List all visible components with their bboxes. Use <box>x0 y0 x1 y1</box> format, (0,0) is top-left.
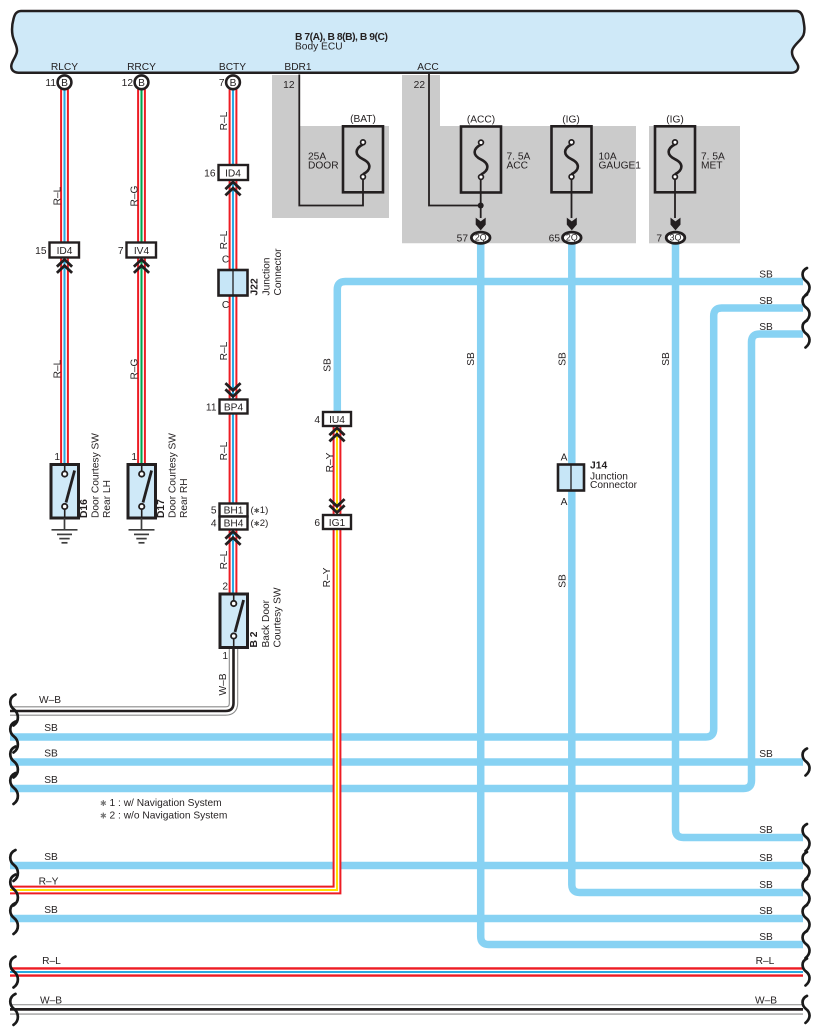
svg-text:12: 12 <box>122 78 134 89</box>
svg-text:SB: SB <box>759 880 773 891</box>
svg-text:11: 11 <box>45 78 56 89</box>
connector IV4 pin 7 <box>127 243 157 258</box>
svg-text:65: 65 <box>549 234 561 245</box>
svg-text:C: C <box>222 300 229 311</box>
svg-text:R–L: R–L <box>219 230 230 249</box>
pin 12 (B) RRCY <box>135 75 149 89</box>
wire SB H10 <box>10 915 803 923</box>
svg-text:Rear LH: Rear LH <box>102 480 113 518</box>
pin 7 (B) BCTY <box>226 75 240 89</box>
wire W-B bottom horizontal <box>10 1004 803 1014</box>
connector ID4 pin 15 <box>50 243 80 258</box>
pin 11 (B) RLCY <box>58 75 72 89</box>
fuse 10A GAUGE1 <box>552 126 592 192</box>
svg-text:R–L: R–L <box>219 111 230 130</box>
svg-text:W–B: W–B <box>40 996 62 1007</box>
svg-text:R–Y: R–Y <box>322 567 333 587</box>
svg-text:Rear RH: Rear RH <box>179 478 190 518</box>
svg-text:B: B <box>61 78 68 89</box>
svg-text:R–L: R–L <box>219 441 230 460</box>
svg-text:GAUGE1: GAUGE1 <box>599 161 642 172</box>
svg-text:7: 7 <box>118 246 124 257</box>
svg-text:B: B <box>230 78 237 89</box>
svg-text:✱ 1 : w/ Navigation System: ✱ 1 : w/ Navigation System <box>100 798 222 809</box>
wire ACC pin to junction <box>429 74 480 206</box>
right breaks <box>803 268 810 295</box>
connector ID4 pin 16 <box>219 165 249 180</box>
fuse 7.5A MET <box>655 126 695 192</box>
wire R-L chain BCTY <box>229 89 238 594</box>
svg-text:ACC: ACC <box>417 62 439 73</box>
svg-text:B 2: B 2 <box>249 631 260 647</box>
chevron up below ID4 <box>57 260 72 273</box>
svg-text:SB: SB <box>759 853 773 864</box>
arrow GAUGE1 fuse <box>567 218 577 231</box>
svg-text:BCTY: BCTY <box>219 62 246 73</box>
chevron up below IU4 <box>329 428 344 441</box>
svg-text:D16: D16 <box>79 499 90 518</box>
svg-text:16: 16 <box>204 169 216 180</box>
gray block BDR1/DOOR fuse <box>272 75 389 218</box>
wire SB V2 from 2Q(65) through J14 to H9 <box>572 244 803 893</box>
svg-text:Body ECU: Body ECU <box>295 42 343 53</box>
wire SB V3 from 3Q(7) to H7 <box>676 244 804 838</box>
connector BH4 pin 4 <box>220 517 248 530</box>
svg-text:1: 1 <box>131 452 137 463</box>
svg-text:SB: SB <box>759 270 773 281</box>
svg-text:SB: SB <box>44 905 58 916</box>
connector BH1 pin 5 <box>220 504 248 517</box>
oval 2Q pin 65 <box>563 232 582 243</box>
left breaks <box>10 695 18 726</box>
junction connector J22 <box>219 270 248 296</box>
wire MET fuse output <box>674 179 676 218</box>
chevron down above BP4 <box>225 383 240 396</box>
junction dot <box>478 203 484 209</box>
svg-text:4: 4 <box>314 415 320 426</box>
fuse 25A DOOR <box>343 126 383 192</box>
connector BP4 pin 11 <box>220 400 248 414</box>
wire SB from IU4 up to H1 right <box>337 282 803 413</box>
wire SB H2/V4/H4 <box>10 308 803 737</box>
svg-text:R–Y: R–Y <box>325 452 336 472</box>
svg-text:Door Courtesy SW: Door Courtesy SW <box>168 433 179 518</box>
wire R-L chain RLCY <box>60 89 69 465</box>
svg-text:SB: SB <box>759 825 773 836</box>
svg-text:MET: MET <box>701 161 723 172</box>
svg-text:4: 4 <box>211 519 217 530</box>
switch B2 back door <box>220 594 248 648</box>
svg-text:SB: SB <box>558 352 569 366</box>
switch D16 <box>51 465 79 519</box>
svg-text:15: 15 <box>35 246 47 257</box>
svg-text:1: 1 <box>222 651 228 662</box>
connector IU4 pin 4 <box>323 412 351 426</box>
svg-text:57: 57 <box>457 234 469 245</box>
svg-text:RRCY: RRCY <box>127 62 156 73</box>
svg-text:7: 7 <box>219 78 225 89</box>
svg-text:1: 1 <box>54 452 60 463</box>
svg-text:SB: SB <box>759 932 773 943</box>
svg-text:BH1: BH1 <box>224 506 244 517</box>
svg-text:11: 11 <box>206 403 217 414</box>
svg-text:BH4: BH4 <box>224 519 244 530</box>
svg-text:22: 22 <box>414 80 426 91</box>
svg-text:D17: D17 <box>156 499 167 518</box>
svg-text:Courtesy SW: Courtesy SW <box>273 587 284 647</box>
svg-text:(BAT): (BAT) <box>350 114 376 125</box>
wire R-L bottom horizontal <box>10 967 803 976</box>
svg-text:SB: SB <box>44 775 58 786</box>
svg-text:(✱1): (✱1) <box>251 505 269 516</box>
arrow ACC fuse <box>476 218 486 231</box>
arrow MET fuse <box>671 218 681 231</box>
connector IG1 pin 6 <box>323 515 351 529</box>
svg-text:SB: SB <box>759 296 773 307</box>
svg-text:J14: J14 <box>590 461 607 472</box>
svg-text:R–L: R–L <box>53 359 64 378</box>
svg-text:A: A <box>561 497 568 508</box>
svg-text:ACC: ACC <box>507 161 529 172</box>
svg-text:Back Door: Back Door <box>261 599 272 647</box>
wire ACC fuse output <box>480 179 482 218</box>
svg-text:SB: SB <box>661 352 672 366</box>
oval 2Q pin 57 <box>471 232 490 243</box>
svg-text:W–B: W–B <box>218 673 229 695</box>
svg-text:R–L: R–L <box>42 956 61 967</box>
wire SB H3/V5/H6 <box>10 334 803 789</box>
svg-text:ID4: ID4 <box>225 169 241 180</box>
svg-text:SB: SB <box>759 906 773 917</box>
svg-text:SB: SB <box>759 749 773 760</box>
svg-text:SB: SB <box>558 574 569 588</box>
svg-text:(IG): (IG) <box>562 115 580 126</box>
svg-text:R–L: R–L <box>219 550 230 569</box>
wire R-G chain RRCY <box>137 89 146 465</box>
ground below D16 <box>64 518 66 530</box>
svg-text:SB: SB <box>44 852 58 863</box>
svg-text:SB: SB <box>466 352 477 366</box>
wire SB H8 <box>10 862 803 870</box>
svg-text:J22: J22 <box>250 278 261 295</box>
wire W-B from B2 to left <box>10 647 234 711</box>
svg-text:(IG): (IG) <box>666 115 684 126</box>
svg-text:R–G: R–G <box>130 358 141 379</box>
chevron down above IG1 <box>329 499 344 512</box>
svg-text:BP4: BP4 <box>224 403 244 414</box>
svg-text:2Q: 2Q <box>475 233 487 243</box>
svg-text:R–L: R–L <box>756 956 775 967</box>
svg-text:Connector: Connector <box>590 480 638 491</box>
svg-text:SB: SB <box>759 322 773 333</box>
svg-text:IV4: IV4 <box>134 246 150 257</box>
svg-text:RLCY: RLCY <box>51 62 78 73</box>
svg-text:DOOR: DOOR <box>308 161 339 172</box>
svg-text:R–L: R–L <box>219 341 230 360</box>
svg-text:2Q: 2Q <box>566 233 578 243</box>
svg-text:W–B: W–B <box>755 996 777 1007</box>
svg-text:SB: SB <box>323 358 334 372</box>
svg-text:IU4: IU4 <box>329 415 345 426</box>
svg-text:B: B <box>138 78 145 89</box>
wire BDR1 pin to DOOR fuse <box>299 75 363 206</box>
svg-text:C: C <box>222 255 229 266</box>
svg-text:SB: SB <box>44 723 58 734</box>
svg-text:7: 7 <box>656 234 662 245</box>
ground below D17 <box>141 518 143 530</box>
wire GAUGE1 fuse output <box>571 179 573 218</box>
svg-text:6: 6 <box>314 518 320 529</box>
gray block MET fuse <box>649 126 740 243</box>
svg-text:A: A <box>561 453 568 464</box>
body ECU band <box>11 11 804 73</box>
svg-text:W–B: W–B <box>39 695 61 706</box>
switch D17 <box>128 465 156 519</box>
svg-text:SB: SB <box>44 749 58 760</box>
svg-text:3Q: 3Q <box>670 233 682 243</box>
chevron up below IV4 <box>134 260 149 273</box>
svg-text:12: 12 <box>283 80 295 91</box>
svg-text:(✱2): (✱2) <box>251 518 269 529</box>
oval 3Q pin 7 <box>666 232 685 243</box>
wire R-Y from IU4 down to bottom-left <box>10 426 337 890</box>
chevron up below BH4 <box>225 532 240 545</box>
junction connector J14 <box>558 465 584 491</box>
chevron up below ID4 <box>225 182 240 195</box>
svg-text:R–L: R–L <box>53 186 64 205</box>
svg-text:✱ 2 : w/o Navigation System: ✱ 2 : w/o Navigation System <box>100 811 227 822</box>
svg-text:ID4: ID4 <box>57 246 73 257</box>
svg-text:R–Y: R–Y <box>39 877 59 888</box>
svg-text:Connector: Connector <box>273 248 284 296</box>
svg-text:2: 2 <box>222 582 228 593</box>
svg-text:R–G: R–G <box>130 185 141 206</box>
wire SB V1 from 2Q(57) to bottom H11 <box>481 244 803 945</box>
svg-text:(ACC): (ACC) <box>467 115 495 126</box>
fuse 7.5A ACC <box>461 127 501 193</box>
svg-text:5: 5 <box>211 506 217 517</box>
svg-text:Junction: Junction <box>262 258 273 296</box>
svg-text:Door Courtesy SW: Door Courtesy SW <box>91 433 102 518</box>
wire SB H5 <box>10 758 803 766</box>
gray block ACC/GAUGE1 fuses <box>402 75 636 243</box>
svg-text:IG1: IG1 <box>329 518 346 529</box>
svg-text:BDR1: BDR1 <box>284 62 312 73</box>
